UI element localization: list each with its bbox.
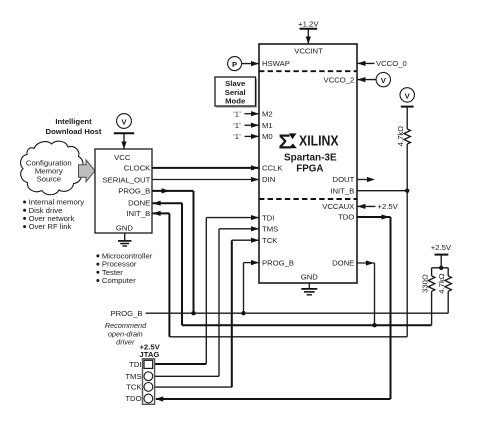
svg-text:FPGA: FPGA — [296, 164, 324, 175]
Slave Serial Mode box — [215, 77, 257, 107]
svg-text:V: V — [381, 76, 387, 85]
svg-text:Computer: Computer — [102, 276, 136, 285]
wire TDO to JTAG — [155, 214, 390, 401]
svg-text:TDO: TDO — [338, 213, 354, 222]
svg-text:DIN: DIN — [262, 175, 275, 184]
svg-text:XILINX: XILINX — [299, 133, 339, 149]
svg-text:Over RF link: Over RF link — [29, 222, 72, 231]
wire host PROG_B net — [152, 188, 194, 313]
cloud: configuration memory source — [21, 141, 83, 195]
wire DOUT — [357, 177, 375, 182]
+1.2V supply — [298, 19, 319, 44]
svg-text:TMS: TMS — [262, 225, 278, 234]
svg-text:DONE: DONE — [128, 199, 150, 208]
Xilinx logo — [279, 130, 339, 153]
svg-text:‘1’: ‘1’ — [233, 121, 241, 130]
svg-text:+2.5V: +2.5V — [378, 202, 399, 211]
bullet list: configuration sources — [23, 198, 84, 232]
JTAG header connector — [143, 359, 155, 405]
svg-text:PROG_B: PROG_B — [110, 309, 142, 318]
svg-text:PROG_B: PROG_B — [262, 258, 294, 267]
block arrow from cloud to host — [79, 160, 96, 182]
wire TCK — [155, 238, 259, 388]
host pin labels — [102, 153, 151, 233]
svg-text:Mode: Mode — [225, 97, 246, 106]
svg-text:VCCINT: VCCINT — [294, 46, 323, 55]
svg-text:330Ω: 330Ω — [420, 274, 429, 293]
svg-text:Intelligent: Intelligent — [55, 117, 92, 126]
resistor R1 4.7k INIT_B pull-up — [396, 107, 410, 191]
DONE net to 330 ohm — [182, 324, 432, 326]
svg-text:GND: GND — [301, 273, 319, 282]
svg-text:Serial: Serial — [225, 88, 246, 97]
svg-text:M1: M1 — [262, 121, 273, 130]
svg-text:V: V — [405, 91, 411, 100]
wire host DONE — [153, 201, 182, 326]
svg-text:HSWAP: HSWAP — [262, 59, 290, 68]
dashed separator 2 — [259, 198, 357, 200]
wire host INIT_B — [153, 211, 408, 337]
FPGA ground — [301, 283, 317, 295]
dashed separator 1 — [259, 70, 357, 72]
VCCO_0 pin wire — [357, 59, 407, 68]
svg-text:Σ: Σ — [279, 130, 291, 153]
svg-text:INIT_B: INIT_B — [330, 186, 354, 195]
JTAG pin labels — [125, 360, 142, 403]
svg-text:VCCO_2: VCCO_2 — [324, 75, 355, 84]
PROG_B node label — [110, 309, 448, 318]
svg-text:TDO: TDO — [125, 394, 141, 403]
svg-text:TDI: TDI — [262, 213, 274, 222]
svg-text:TDI: TDI — [129, 360, 141, 369]
svg-text:+2.5V: +2.5V — [431, 243, 452, 252]
svg-text:DONE: DONE — [332, 259, 354, 268]
wire FPGA DONE — [357, 260, 377, 327]
wire INIT_B to pull-up — [357, 189, 409, 337]
'1' to M2 — [233, 109, 259, 118]
svg-text:TCK: TCK — [126, 383, 142, 392]
svg-text:4.7kΩ: 4.7kΩ — [437, 273, 446, 294]
svg-text:VCCAUX: VCCAUX — [322, 202, 354, 211]
P circle (HSWAP pull) — [228, 57, 242, 71]
resistor R3 4.7k PROG_B pull-up — [437, 268, 451, 313]
svg-text:VCC: VCC — [114, 153, 131, 162]
svg-text:+1.2V: +1.2V — [298, 19, 319, 28]
svg-text:INIT_B: INIT_B — [126, 209, 150, 218]
svg-text:P: P — [232, 60, 237, 69]
wire TDI — [155, 215, 259, 364]
supply V2 at VCCO_2 — [357, 72, 390, 86]
note: recommend open-drain driver — [105, 321, 147, 347]
svg-text:VCCO_0: VCCO_0 — [376, 59, 407, 68]
svg-text:TMS: TMS — [125, 372, 141, 381]
supply V1 above host — [114, 114, 134, 149]
svg-text:V: V — [121, 118, 127, 127]
'1' to M1 — [233, 121, 259, 130]
bullet list: host types — [96, 252, 152, 286]
svg-text:Source: Source — [37, 175, 61, 184]
svg-text:PROG_B: PROG_B — [118, 187, 150, 196]
JTAG header labels — [139, 343, 160, 360]
svg-text:JTAG: JTAG — [139, 350, 159, 359]
wire TMS — [155, 226, 259, 376]
svg-text:driver: driver — [116, 338, 135, 347]
svg-text:M2: M2 — [262, 109, 273, 118]
svg-text:Download Host: Download Host — [46, 127, 102, 136]
FPGA U1 Spartan-3E box — [259, 44, 357, 283]
wire CLOCK to CCLK — [152, 165, 259, 170]
wire VCCAUX +2.5V — [357, 202, 398, 211]
svg-text:SERIAL_OUT: SERIAL_OUT — [102, 175, 150, 184]
svg-text:TCK: TCK — [262, 236, 278, 245]
'1' to M0 — [233, 132, 259, 141]
svg-text:‘1’: ‘1’ — [233, 132, 241, 141]
+2.5V supply bottom right — [431, 243, 452, 270]
svg-text:Slave: Slave — [225, 79, 246, 88]
svg-text:Spartan-3E: Spartan-3E — [284, 153, 337, 164]
svg-text:‘1’: ‘1’ — [233, 109, 241, 118]
svg-text:4.7kΩ: 4.7kΩ — [396, 126, 405, 147]
wire P to HSWAP — [242, 61, 259, 66]
svg-text:GND: GND — [116, 224, 134, 233]
svg-text:DOUT: DOUT — [333, 175, 355, 184]
wire SERIAL_OUT to DIN — [152, 177, 259, 182]
download host box — [95, 149, 152, 233]
host ground symbol — [118, 233, 131, 246]
resistor R2 330 ohm DONE pull-up — [420, 268, 434, 325]
FPGA pin labels — [262, 46, 355, 281]
wire FPGA PROG_B — [244, 260, 260, 313]
svg-text:M0: M0 — [262, 132, 273, 141]
label: Intelligent Download Host — [46, 117, 102, 136]
supply V3 for INIT_B pull-up — [400, 88, 414, 107]
svg-text:CLOCK: CLOCK — [124, 164, 151, 173]
svg-text:CCLK: CCLK — [262, 164, 283, 173]
